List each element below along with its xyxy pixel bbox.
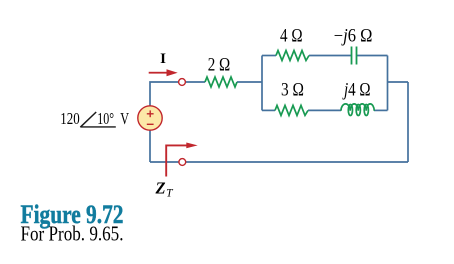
svg-text:10°: 10° (97, 109, 114, 128)
wire: top branch right segment (capacitor to right node) (357, 55, 388, 57)
impedance arrow Z_T (166, 143, 198, 177)
svg-text:For Prob. 9.65.: For Prob. 9.65. (21, 222, 124, 246)
wire: left vertical of parallel block (261, 56, 263, 111)
wire: bottom branch middle segment (3-ohm to inductor) (308, 109, 341, 111)
resistor 4-ohm (276, 51, 309, 61)
svg-text:3 Ω: 3 Ω (281, 81, 304, 101)
current arrow I (149, 69, 178, 76)
label 120/10 V (60, 109, 129, 128)
voltage source 120/10 V (138, 106, 162, 130)
svg-text:j4 Ω: j4 Ω (342, 81, 370, 101)
inductor j4-ohm (341, 104, 374, 116)
wire: bottom branch right segment (374, 109, 388, 111)
wire: 2-ohm resistor to left node of parallel block (237, 81, 262, 83)
wire: bottom branch left segment (262, 109, 275, 111)
wire: bottom rail (150, 161, 408, 163)
svg-text:120: 120 (60, 109, 79, 128)
wire: top branch middle segment (4-ohm to capacitor) (309, 55, 352, 57)
wire: right vertical of parallel block (387, 56, 389, 111)
terminal node (bottom) (179, 159, 186, 166)
svg-text:−j6 Ω: −j6 Ω (334, 27, 373, 47)
wire: outer right vertical (407, 82, 409, 162)
wire: top branch left segment (262, 55, 276, 57)
svg-text:2 Ω: 2 Ω (208, 56, 231, 76)
wire: top rail from source to 2-ohm resistor (150, 82, 205, 106)
resistor 3-ohm (275, 105, 308, 115)
terminal node (top) (179, 79, 186, 86)
svg-text:V: V (120, 109, 129, 128)
svg-text:4 Ω: 4 Ω (280, 27, 303, 47)
resistor 2-ohm (205, 77, 237, 87)
capacitor -j6-ohm (352, 47, 357, 65)
wire: middle right feed (388, 81, 409, 83)
svg-text:I: I (160, 51, 166, 67)
wire: source bottom lead (149, 131, 151, 163)
